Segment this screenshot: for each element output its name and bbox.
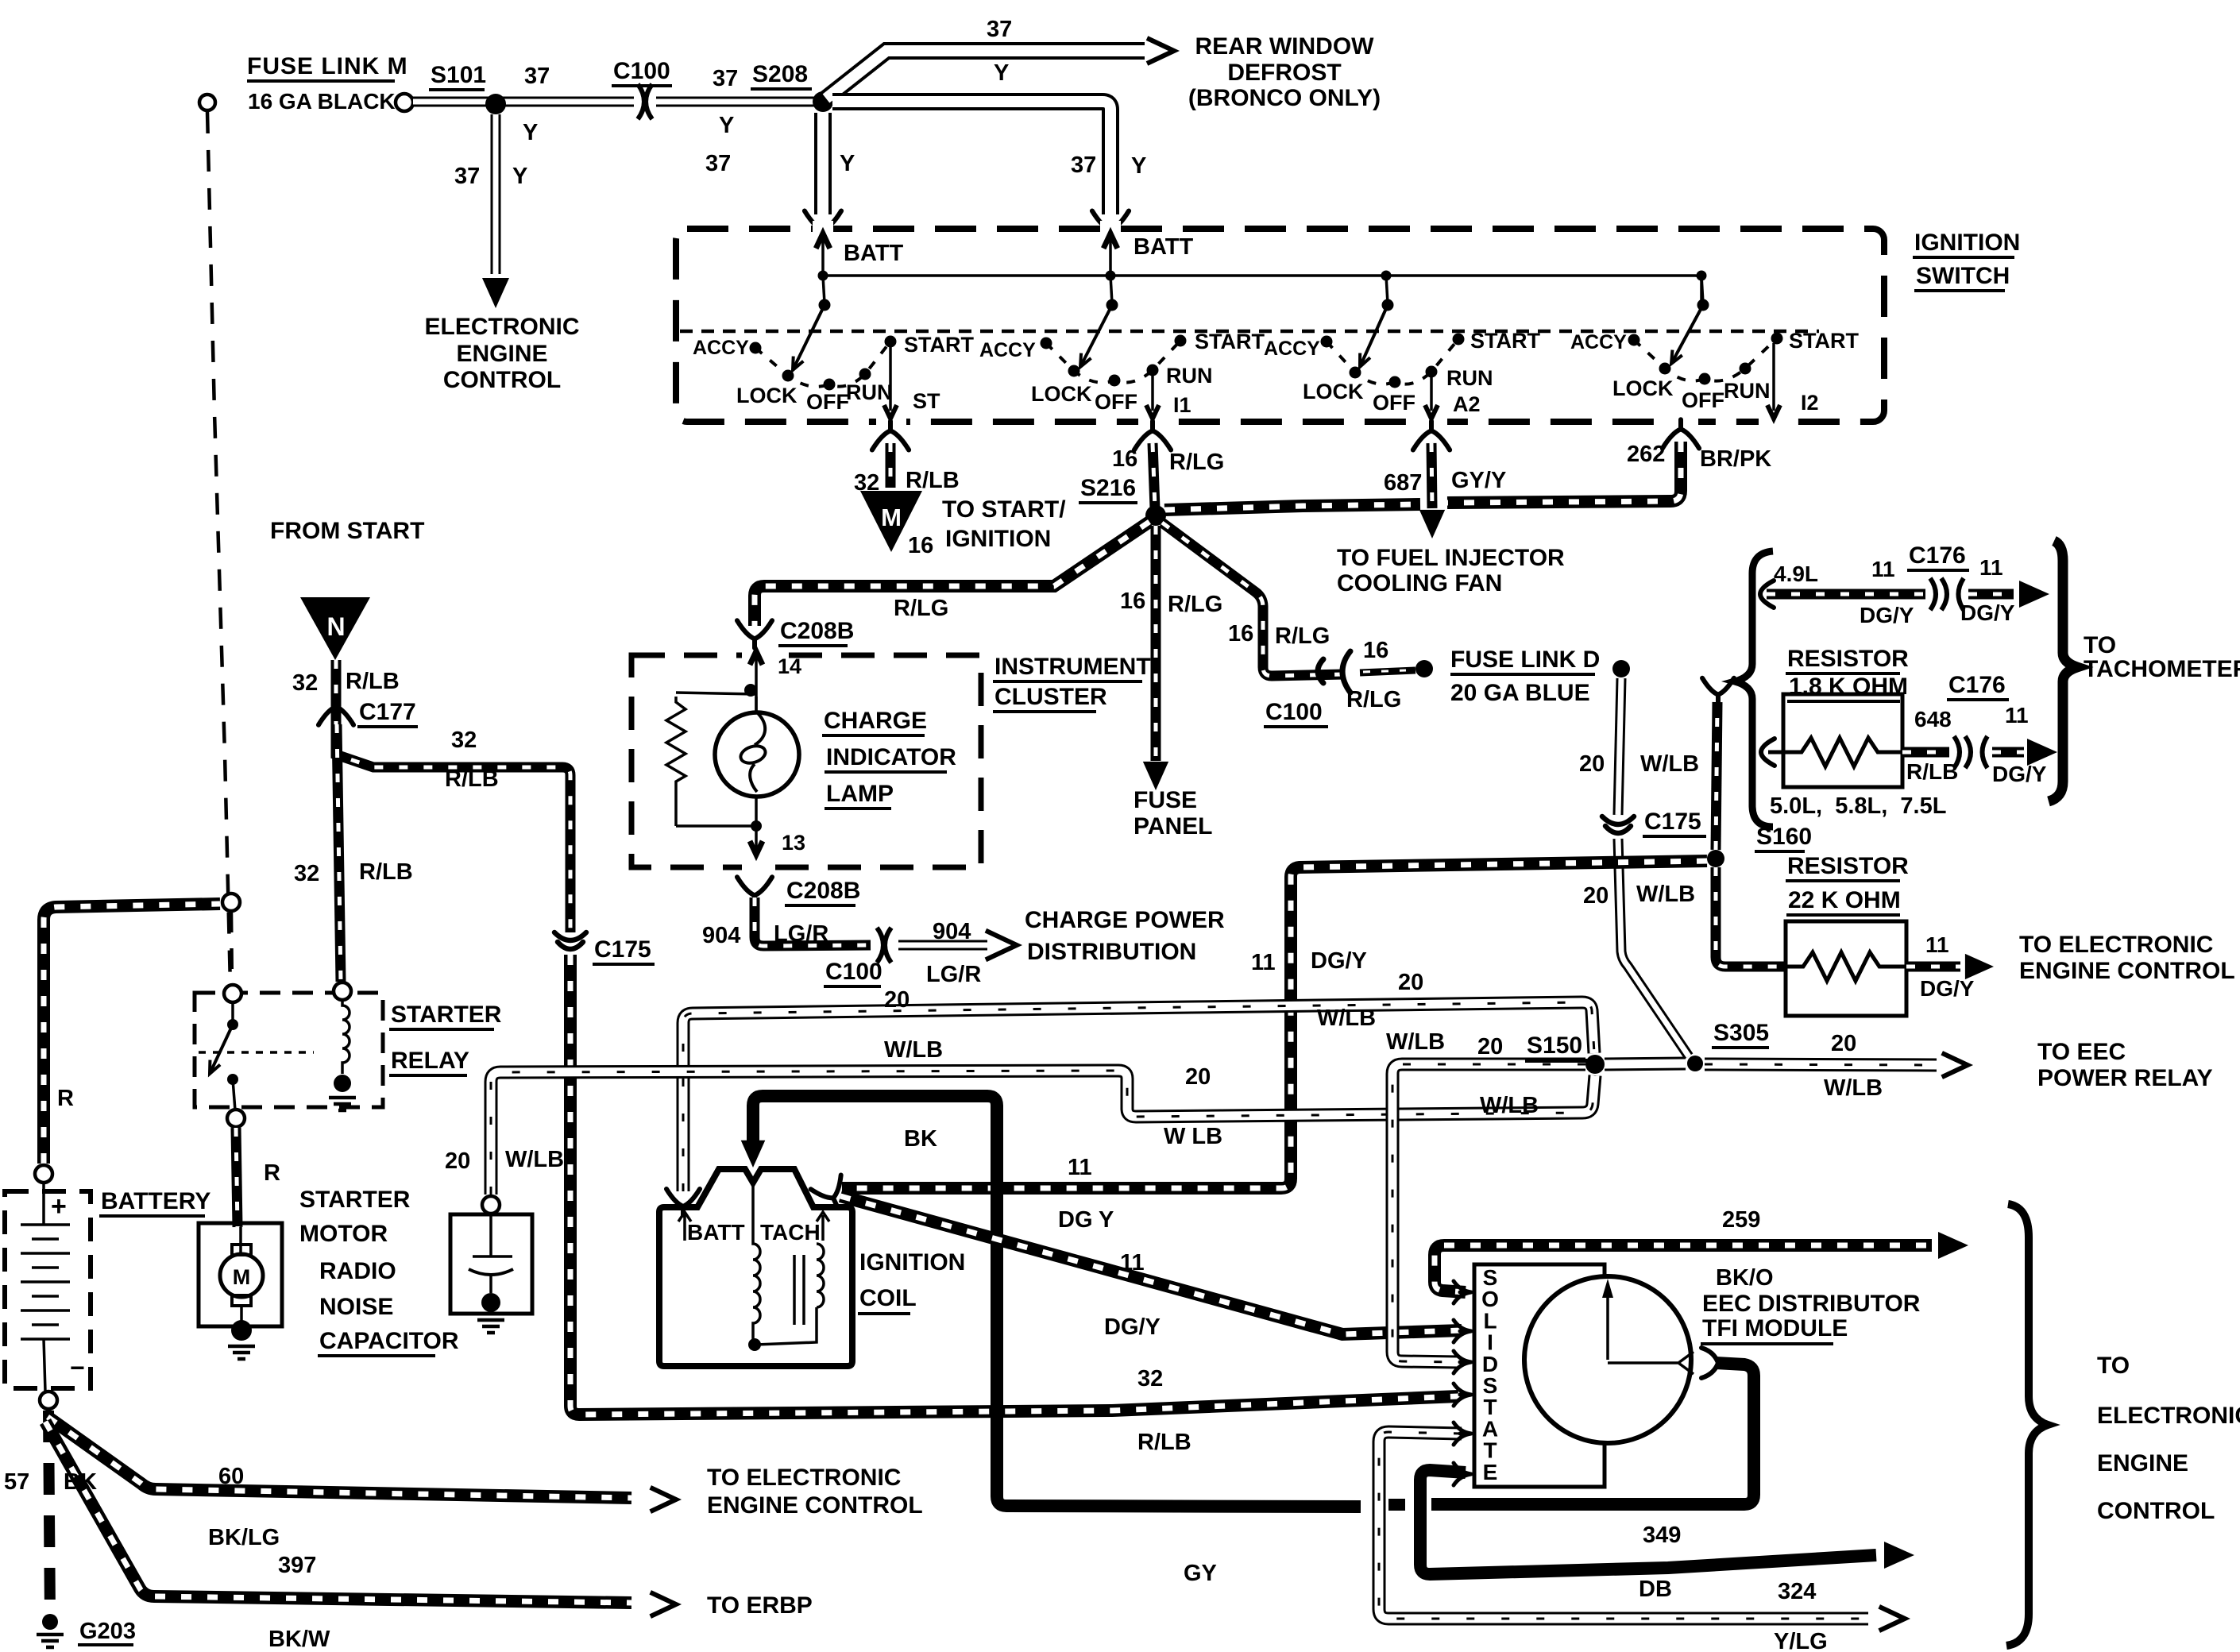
wire 397 BK/W battery to ERBP [45, 1422, 631, 1603]
svg-text:S101: S101 [431, 62, 486, 88]
svg-text:37: 37 [524, 64, 550, 89]
svg-text:11: 11 [2005, 703, 2029, 728]
switch section 2 position dots and arcs [1046, 341, 1180, 383]
svg-text:IGNITION: IGNITION [859, 1249, 965, 1276]
wire 37 Y fuse-link-M to S101 to C100 to S208 (double line) [413, 97, 821, 107]
connector chevron distributor output [1701, 1348, 1718, 1378]
svg-text:EEC DISTRIBUTOR: EEC DISTRIBUTOR [1702, 1291, 1921, 1317]
svg-text:C100: C100 [613, 58, 670, 84]
svg-text:ACCY: ACCY [1570, 331, 1627, 353]
svg-text:904: 904 [702, 923, 740, 948]
node: fuse link M terminal circle [396, 94, 413, 111]
battery dashed box [5, 1191, 91, 1388]
svg-text:R/LB: R/LB [359, 859, 413, 885]
wire BK ignition coil top feed [753, 1096, 1361, 1507]
svg-text:CLUSTER: CLUSTER [994, 684, 1107, 710]
svg-text:LOCK: LOCK [1303, 380, 1364, 403]
svg-text:DEFROST: DEFROST [1227, 60, 1341, 86]
distributor rotor lines [1608, 1298, 1678, 1363]
svg-text:32: 32 [294, 861, 319, 886]
svg-text:TO FUEL INJECTOR: TO FUEL INJECTOR [1337, 545, 1565, 571]
svg-text:R/LG: R/LG [894, 596, 948, 621]
connector chevron BR/PK output [1663, 419, 1699, 448]
svg-text:37: 37 [987, 17, 1012, 42]
svg-text:ACCY: ACCY [1264, 338, 1320, 360]
svg-text:E: E [1483, 1460, 1498, 1484]
wire 16 R/LG I1 to S216 [1153, 443, 1155, 508]
wire S160 down to 22K resistor [1716, 867, 1785, 967]
svg-text:OFF: OFF [806, 390, 849, 414]
charge indicator lamp circuit lines [676, 693, 756, 694]
svg-text:S208: S208 [752, 61, 808, 87]
wire 32 R/LB C175 down to TFI module [570, 955, 1458, 1415]
wire 11 DG/Y 4.9L branch [1767, 589, 1929, 600]
svg-text:C175: C175 [1644, 809, 1701, 835]
wire 57 BK battery negative dashed [48, 1411, 50, 1617]
svg-text:RESISTOR: RESISTOR [1787, 646, 1909, 672]
svg-text:W/LB: W/LB [1824, 1075, 1883, 1101]
svg-text:FROM START: FROM START [270, 518, 424, 544]
starter motor symbol [239, 1227, 242, 1253]
svg-text:DG/Y: DG/Y [1311, 948, 1367, 974]
svg-text:C100: C100 [825, 959, 882, 985]
svg-text:R/LB: R/LB [1906, 759, 1958, 784]
wire 32 R/LB ST to M connector [886, 443, 896, 488]
connector C175 (right) [1602, 816, 1634, 833]
svg-text:11: 11 [1120, 1250, 1145, 1276]
svg-text:20: 20 [445, 1148, 470, 1174]
svg-text:W/LB: W/LB [1317, 1005, 1376, 1031]
wire 11 DG/Y coil TACH diagonal to module [840, 1196, 1462, 1334]
svg-text:259: 259 [1722, 1207, 1760, 1233]
svg-text:C208B: C208B [780, 618, 854, 644]
ignition coil common node [748, 1338, 761, 1351]
resistor 22 K OHM box [1786, 921, 1906, 1016]
wire 20 W/LB coil BATT feed to S150 (upper) [683, 1002, 1594, 1191]
svg-text:BK: BK [64, 1469, 97, 1495]
switch section 4 output I2 [1772, 343, 1775, 411]
svg-text:RESISTOR: RESISTOR [1787, 853, 1909, 879]
svg-text:32: 32 [451, 728, 477, 753]
wire 37 Y S208 right and down to ignition switch BATT (right) [832, 102, 1110, 214]
svg-text:COIL: COIL [859, 1285, 917, 1311]
svg-text:LOCK: LOCK [1612, 376, 1674, 400]
svg-text:DG/Y: DG/Y [1992, 762, 2047, 786]
svg-text:904: 904 [933, 919, 971, 944]
wire GY dash joint [1388, 1499, 1405, 1511]
svg-text:20: 20 [1185, 1064, 1211, 1090]
svg-text:I1: I1 [1173, 393, 1191, 417]
switch section 3 position dots and arcs [1327, 339, 1458, 384]
wire R relay to starter motor [236, 1128, 238, 1227]
switch section 3 feed node [1381, 271, 1392, 281]
ignition switch bottom edge gaps [876, 413, 906, 429]
svg-text:11: 11 [1979, 555, 2003, 580]
connector C177 [319, 697, 353, 725]
radio noise capacitor box [450, 1214, 532, 1314]
wire 904 LG/R C208B to C100 [755, 897, 871, 946]
svg-text:32: 32 [292, 670, 318, 696]
svg-text:+: + [51, 1191, 67, 1222]
wire dashed vertical (left edge) [199, 95, 215, 110]
svg-text:IGNITION: IGNITION [1914, 230, 2020, 256]
wire 20 W/LB S150 to TFI module pin (loop) [1392, 1064, 1585, 1362]
svg-text:ENGINE: ENGINE [456, 341, 547, 367]
svg-text:FUSE: FUSE [1134, 787, 1197, 813]
svg-text:397: 397 [278, 1553, 316, 1578]
ignition coil core bars [794, 1255, 804, 1325]
wire 20 W/LB capacitor to S150 (lower) [491, 1071, 1595, 1195]
svg-text:37: 37 [713, 66, 738, 91]
connector C176 (648) [1949, 734, 1994, 770]
svg-text:16: 16 [1120, 589, 1145, 614]
wire R battery to starter relay [44, 904, 220, 1164]
resistor 1.8 K OHM zigzag [1768, 738, 1902, 766]
svg-text:POWER RELAY: POWER RELAY [2037, 1065, 2213, 1091]
svg-text:DISTRIBUTION: DISTRIBUTION [1027, 939, 1196, 965]
ignition switch battery bus line [823, 276, 1701, 303]
svg-text:R/LB: R/LB [1137, 1430, 1191, 1455]
svg-text:DG Y: DG Y [1058, 1207, 1114, 1233]
svg-text:W/LB: W/LB [1480, 1093, 1539, 1118]
svg-text:R/LB: R/LB [906, 468, 960, 493]
svg-text:S305: S305 [1713, 1020, 1769, 1046]
label S150 underline redraw [1525, 1060, 1587, 1063]
switch section 2 moving contact [1080, 305, 1112, 367]
wire 262 BR/PK down and left to cooling fan junction [1447, 442, 1681, 503]
switch section 3 moving contact [1360, 305, 1388, 367]
node fuse link D left terminal [1415, 660, 1433, 677]
svg-text:STARTER: STARTER [391, 1002, 502, 1028]
svg-text:ST: ST [913, 389, 940, 413]
svg-text:W/LB: W/LB [1640, 751, 1699, 777]
svg-text:CHARGE POWER: CHARGE POWER [1025, 907, 1225, 933]
svg-text:20: 20 [1579, 751, 1605, 777]
svg-text:A2: A2 [1453, 392, 1481, 416]
svg-text:ENGINE CONTROL: ENGINE CONTROL [2019, 958, 2235, 984]
svg-text:C175: C175 [594, 936, 651, 963]
svg-text:BATT: BATT [1134, 234, 1193, 260]
splice S160 [1707, 850, 1724, 867]
instrument cluster dashed box [631, 655, 981, 867]
wire 259 BK/O module to electronic engine control [1435, 1245, 1932, 1292]
brace left (engine branches) [1735, 551, 1773, 827]
distributor circle [1524, 1276, 1691, 1443]
radio noise capacitor symbol [473, 1214, 512, 1293]
wire 20 W/LB fuse link D down to C175 [1618, 678, 1621, 815]
wire 349 DB module to electronic engine control [1420, 1470, 1876, 1574]
svg-text:ELECTRONIC: ELECTRONIC [2097, 1403, 2240, 1429]
wire 37 Y S101 down to electronic engine control [491, 114, 501, 274]
svg-text:20: 20 [1831, 1031, 1856, 1056]
wire 37 Y S208 down to ignition switch BATT (left) [814, 113, 832, 214]
svg-text:LAMP: LAMP [826, 781, 894, 807]
ground G203 [42, 1614, 58, 1630]
svg-text:ENGINE CONTROL: ENGINE CONTROL [707, 1492, 923, 1519]
svg-text:BATT: BATT [687, 1220, 745, 1245]
svg-text:START: START [1470, 329, 1540, 353]
svg-text:INDICATOR: INDICATOR [826, 744, 956, 770]
svg-text:C176: C176 [1948, 672, 2006, 698]
ignition coil primary winding [753, 1185, 760, 1341]
wire W/LB S150 to S305 [1605, 1063, 1686, 1064]
starter motor box [199, 1223, 282, 1326]
TFI module solid state box [1474, 1264, 1605, 1487]
svg-text:349: 349 [1643, 1523, 1681, 1548]
svg-text:GY/Y: GY/Y [1451, 468, 1506, 493]
splice S305 [1687, 1056, 1703, 1071]
wire 16 R/LG S216 to C208B (instrument cluster) [755, 522, 1149, 626]
svg-text:TO ERBP: TO ERBP [707, 1592, 813, 1619]
wire 20 W/LB S305 to EEC power relay [1705, 1064, 1937, 1065]
resistor 22 K OHM zigzag [1786, 952, 1906, 981]
svg-text:R/LG: R/LG [1275, 623, 1330, 649]
wire 32 R/LB C177 jog right [336, 721, 570, 932]
connector chevron BATT right [1092, 211, 1129, 240]
coil BATT TACH pin arrows [685, 1215, 823, 1241]
svg-text:ACCY: ACCY [979, 339, 1036, 361]
wire 16 R/LG S216 down to fuse panel [1151, 526, 1161, 761]
svg-text:BK/W: BK/W [268, 1627, 330, 1652]
svg-text:16: 16 [1363, 638, 1388, 663]
svg-text:GY: GY [1184, 1561, 1217, 1586]
svg-text:FUSE LINK D: FUSE LINK D [1450, 647, 1600, 673]
svg-text:C176: C176 [1909, 542, 1966, 569]
svg-text:4.9L: 4.9L [1774, 562, 1818, 586]
brace right to tachometer [2049, 541, 2077, 801]
wire 11 S160 up to tachometer resistor branches [1716, 702, 1717, 850]
wire 11 DG/Y C176 to tachometer (lower) [1992, 747, 2024, 758]
svg-text:TFI MODULE: TFI MODULE [1702, 1315, 1848, 1341]
splice S208 [813, 91, 833, 112]
svg-text:G203: G203 [79, 1619, 136, 1644]
svg-text:5.0L, 5.8L, 7.5L: 5.0L, 5.8L, 7.5L [1770, 793, 1946, 819]
svg-text:648: 648 [1914, 707, 1952, 731]
svg-text:37: 37 [454, 164, 480, 189]
wire 32 R/LB (from start) down to relay [337, 724, 341, 982]
svg-text:DG/Y: DG/Y [1860, 603, 1914, 627]
wire 687 GY/Y A2 down to fuel injector cooling fan [1431, 443, 1432, 508]
svg-text:C100: C100 [1265, 699, 1323, 725]
connector chevron I1 output [1134, 421, 1171, 450]
svg-text:RELAY: RELAY [391, 1048, 469, 1074]
svg-text:W/LB: W/LB [1636, 882, 1695, 907]
wire dashed battery to relay (vertical) [231, 912, 232, 985]
svg-text:W/LB: W/LB [1386, 1029, 1445, 1055]
starter relay terminal circles [224, 985, 241, 1002]
svg-text:22 K OHM: 22 K OHM [1788, 887, 1901, 913]
pin 14 arrow into cluster [755, 656, 758, 714]
svg-text:DG/Y: DG/Y [1920, 976, 1975, 1001]
svg-text:MOTOR: MOTOR [299, 1221, 388, 1247]
svg-text:OFF: OFF [1373, 391, 1415, 415]
svg-text:START: START [1789, 329, 1859, 353]
svg-text:Y: Y [1131, 153, 1146, 179]
svg-text:LOCK: LOCK [736, 384, 798, 407]
svg-text:R: R [264, 1160, 280, 1186]
svg-text:TO ELECTRONIC: TO ELECTRONIC [707, 1465, 901, 1491]
charge indicator lamp [715, 712, 799, 797]
switch section 1 position dots and arcs [755, 342, 890, 387]
svg-text:Y/LG: Y/LG [1774, 1629, 1828, 1652]
arrow to electronic engine control (37 Y) [482, 278, 509, 308]
svg-text:W LB: W LB [1164, 1124, 1222, 1149]
svg-text:11: 11 [1871, 557, 1895, 581]
wire 324 Y/LG module to electronic engine control [1379, 1432, 1868, 1619]
starter relay linkage dashed line [199, 1051, 314, 1054]
node fuse link D right terminal [1612, 660, 1630, 677]
radio noise capacitor ground [481, 1293, 500, 1312]
svg-text:37: 37 [1071, 152, 1096, 178]
svg-text:Y: Y [994, 60, 1009, 86]
svg-text:DG/Y: DG/Y [1104, 1314, 1161, 1340]
svg-text:LOCK: LOCK [1031, 382, 1092, 406]
svg-text:INSTRUMENT: INSTRUMENT [994, 654, 1151, 680]
svg-text:FUSE LINK M: FUSE LINK M [247, 53, 408, 79]
splice S216 dot [1145, 505, 1166, 526]
svg-text:RUN: RUN [1166, 364, 1213, 388]
svg-text:324: 324 [1778, 1579, 1816, 1604]
svg-text:REAR WINDOW: REAR WINDOW [1195, 33, 1375, 60]
svg-text:Y: Y [840, 151, 855, 176]
svg-text:BATT: BATT [844, 241, 903, 266]
svg-text:TACHOMETER: TACHOMETER [2084, 656, 2240, 682]
svg-text:(BRONCO ONLY): (BRONCO ONLY) [1188, 85, 1381, 111]
svg-text:TO START/: TO START/ [942, 496, 1066, 523]
connector N from start (triangle) [300, 597, 370, 660]
svg-text:16: 16 [1112, 446, 1137, 472]
starter relay dashed box [195, 993, 383, 1107]
connector C208B top [737, 620, 772, 648]
battery negative circle [40, 1391, 57, 1409]
wire 37 Y S208 to rear window defrost [826, 51, 1145, 98]
svg-text:R/LG: R/LG [1168, 592, 1222, 617]
svg-text:R/LB: R/LB [346, 669, 400, 694]
wire 11 DG/Y C176 to tachometer [1968, 589, 2014, 600]
brace to electronic engine control [2006, 1204, 2048, 1646]
wire 16 R/LG S216 right to cooling fan junction [1164, 504, 1420, 510]
svg-text:R/LG: R/LG [1346, 687, 1401, 712]
svg-text:20: 20 [1398, 970, 1423, 995]
arrow to fuel injector cooling fan [1419, 510, 1445, 538]
svg-text:TO ELECTRONIC: TO ELECTRONIC [2019, 932, 2213, 958]
starter motor ground [231, 1320, 252, 1341]
svg-text:COOLING FAN: COOLING FAN [1337, 570, 1502, 596]
svg-text:S150: S150 [1527, 1032, 1582, 1059]
svg-text:BATTERY: BATTERY [101, 1188, 210, 1214]
svg-text:PANEL: PANEL [1134, 813, 1212, 840]
svg-text:TACH: TACH [760, 1220, 821, 1245]
svg-text:ENGINE: ENGINE [2097, 1450, 2188, 1476]
svg-text:ELECTRONIC: ELECTRONIC [425, 314, 580, 340]
connector chevron 4.9L branch start [1760, 581, 1774, 608]
svg-text:C208B: C208B [786, 878, 860, 904]
splice S101 [485, 94, 506, 114]
svg-text:20: 20 [1477, 1034, 1503, 1060]
BATT arrow right [1109, 237, 1112, 276]
splice S150 [1585, 1055, 1605, 1074]
svg-text:RUN: RUN [1724, 379, 1771, 403]
switch section 4 moving contact [1671, 305, 1703, 364]
svg-text:R/LG: R/LG [1169, 450, 1224, 475]
connector C175 (left) [554, 932, 586, 949]
switch section 4 feed node [1697, 271, 1707, 281]
resistor 1.8 K OHM box [1783, 694, 1902, 787]
svg-text:Y: Y [523, 120, 538, 145]
svg-text:CONTROL: CONTROL [2097, 1498, 2215, 1524]
arrow BK into coil [741, 1141, 766, 1168]
arrow to fuse panel [1143, 762, 1168, 790]
pin 13 arrow out of cluster [750, 841, 763, 855]
svg-text:DG/Y: DG/Y [1960, 600, 2015, 625]
starter relay coil ground [334, 1075, 351, 1092]
svg-text:NOISE: NOISE [319, 1294, 393, 1320]
svg-text:TO: TO [2097, 1353, 2130, 1379]
connector chevron at branch point [1702, 678, 1734, 703]
svg-text:START: START [904, 333, 974, 357]
svg-text:IGNITION: IGNITION [945, 526, 1051, 552]
svg-text:M: M [881, 504, 902, 531]
connector chevron ST output [872, 421, 909, 450]
switch section 2 output I1 [1151, 375, 1154, 411]
wire 16 R/LG C100 to fuse link D terminal [1360, 670, 1415, 673]
svg-text:R: R [57, 1086, 74, 1111]
resistor (cluster shunt) [666, 697, 686, 826]
connector C100 (904) [873, 926, 895, 964]
svg-text:32: 32 [1137, 1366, 1163, 1391]
svg-text:20 GA BLUE: 20 GA BLUE [1450, 680, 1590, 706]
svg-text:11: 11 [1068, 1155, 1092, 1180]
svg-text:262: 262 [1627, 442, 1665, 467]
switch section 1 moving contact [793, 305, 825, 370]
svg-text:SWITCH: SWITCH [1916, 263, 2010, 289]
wire 16 R/LG S216 diagonal to C100 (fuse link D) [1162, 523, 1344, 676]
switch section 1 feed node [818, 271, 828, 281]
svg-text:16: 16 [1228, 621, 1253, 647]
svg-text:TO: TO [2084, 632, 2116, 658]
svg-text:20: 20 [1583, 883, 1609, 909]
svg-text:Y: Y [719, 113, 734, 138]
svg-text:RUN: RUN [1446, 366, 1493, 390]
switch section 1 output ST [889, 346, 892, 411]
svg-text:37: 37 [705, 151, 731, 176]
svg-text:LG/R: LG/R [774, 921, 828, 947]
svg-text:C177: C177 [359, 699, 416, 725]
svg-text:11: 11 [1251, 950, 1276, 975]
svg-text:CONTROL: CONTROL [443, 367, 561, 393]
connector C100 (top) [634, 83, 656, 121]
svg-text:N: N [326, 612, 345, 641]
svg-text:I2: I2 [1801, 391, 1819, 415]
svg-text:BK/O: BK/O [1716, 1265, 1774, 1291]
svg-text:RADIO: RADIO [319, 1258, 396, 1284]
wire 648 R/LB resistor to C176 [1902, 747, 1954, 758]
svg-text:ACCY: ACCY [693, 337, 749, 359]
connector chevron A2 output [1413, 421, 1450, 450]
radio noise capacitor terminal [482, 1196, 500, 1214]
switch section 3 output A2 [1430, 376, 1433, 411]
connector chevron coil TACH terminal [811, 1175, 852, 1214]
connector chevron BATT left [805, 211, 841, 240]
svg-text:RUN: RUN [846, 380, 893, 404]
svg-text:687: 687 [1384, 470, 1422, 496]
switch section 2 feed node [1106, 271, 1116, 281]
wire 32 R/LB N to C177 [331, 660, 342, 702]
svg-text:11: 11 [1925, 932, 1949, 957]
wire 20 W/LB C175 down and diagonal to S305 [1618, 839, 1689, 1056]
wire distributor to GY loop [1431, 1363, 1754, 1504]
cluster box edge gaps at pins [742, 649, 770, 662]
